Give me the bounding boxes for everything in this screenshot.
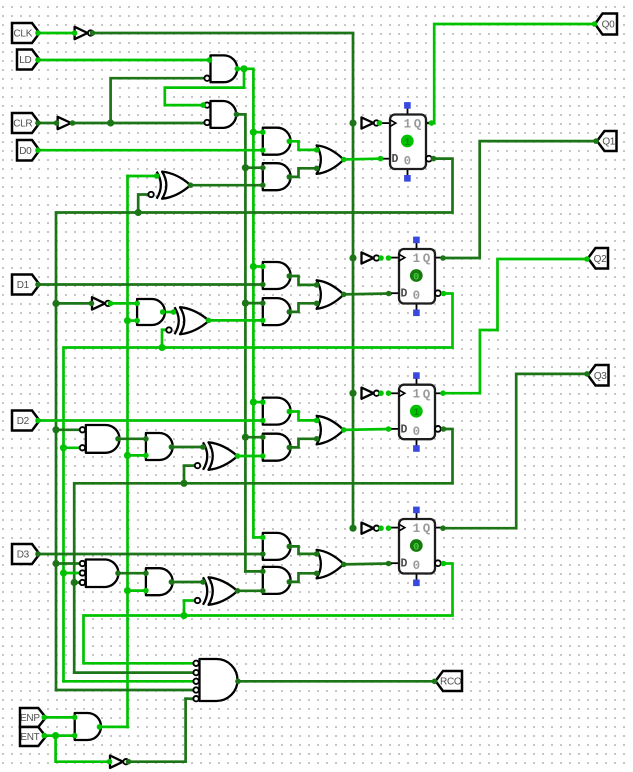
node O3 in a [314, 551, 320, 557]
node X3 output [235, 588, 241, 594]
node O3 output [341, 562, 347, 568]
output pin Q1 [597, 131, 617, 151]
wire A3L out to O3 [289, 546, 316, 554]
output pin Q2 [588, 248, 608, 269]
node I1 input [89, 301, 95, 307]
node U1 D input [378, 156, 384, 162]
input pin CLK [12, 23, 40, 43]
node A0L in a [260, 129, 266, 135]
node output pin Q2 [584, 256, 590, 262]
NOT gate N2 (ENT inverter) [110, 756, 129, 768]
svg-text:Q3: Q3 [594, 371, 607, 382]
svg-text:0: 0 [413, 271, 419, 283]
XOR gate X3 (toggle bit3) [195, 577, 238, 605]
svg-text:ENP: ENP [20, 713, 40, 724]
node X3 in a [200, 579, 206, 585]
wire X2 out to A2C input [238, 455, 263, 458]
wire A2T1 out to A2T2 [118, 437, 146, 440]
svg-text:RCO: RCO [440, 677, 462, 688]
AND gate A5 (ENP AND ENT) [75, 713, 101, 740]
node B1 input [54, 120, 60, 126]
node CLK pin [35, 30, 41, 36]
node A3T2 in b [143, 588, 149, 594]
node O1 in a [314, 282, 320, 288]
wire U2 Q to output Q1 [443, 141, 596, 258]
node U2 Q output [440, 255, 446, 261]
wire X0 out to A0C input [191, 184, 263, 187]
node CLR pin [35, 120, 41, 126]
D flip-flop U3 (bit2, state 1) [391, 372, 442, 452]
wire ENT'' to A6 input [186, 697, 194, 700]
wire A1T out to X1 input [163, 311, 175, 314]
wire U4 Q to output Q3 [443, 374, 587, 528]
svg-text:D1: D1 [17, 280, 30, 291]
node O1 output [341, 292, 347, 298]
wire O0 out to U1 D input [344, 157, 382, 161]
wire Q1' to A2T1 bubble input 2 [64, 446, 83, 449]
node A3L output [287, 544, 293, 550]
node A2L output [287, 409, 293, 415]
svg-text:D: D [401, 423, 408, 436]
node A1T output [160, 309, 166, 315]
node A0C in b [260, 182, 266, 188]
wire A0L out to O0 [289, 141, 316, 150]
node A5 in a [72, 715, 78, 721]
wire U3 Q' net: Q2' bus [74, 429, 452, 673]
node U4 clock node a [378, 525, 384, 531]
NOT gate I1 (Q0' inverter) [92, 297, 111, 309]
node A1L output [287, 273, 293, 279]
junction Q0' bus to A2T1 [52, 426, 59, 433]
wire N2 out up to A6 input [130, 699, 186, 762]
junction count bus bit1 [124, 317, 131, 324]
junction Q0' bus to I1 [52, 300, 59, 307]
D flip-flop U2 (bit1, state 0) [391, 237, 442, 317]
input pin ENP [20, 708, 46, 727]
input pin CLR [12, 113, 40, 133]
node A2C in a [260, 434, 266, 440]
node A3C output [287, 579, 293, 585]
svg-text:CLK: CLK [14, 29, 33, 40]
wire CLK to NOT N1 [38, 32, 75, 35]
wire load-enable to A1L input [253, 265, 262, 268]
wire Q0' to inverter I1 [56, 302, 92, 305]
node A3L in a [260, 535, 266, 541]
wire Q0' to A3T1 bubble input [56, 562, 82, 565]
node O2 in a [314, 418, 320, 424]
node N1 input [72, 30, 78, 36]
input pin LD [17, 50, 40, 70]
buffer B1 (CLR) [58, 117, 72, 129]
AND gate A0L (load_en AND D0) [263, 128, 291, 155]
node A1C in b [260, 318, 266, 324]
svg-text:Q1: Q1 [602, 137, 615, 148]
NOT gate N1 (CLK inverter) [75, 27, 94, 39]
wire A0C out to O0 [289, 168, 316, 177]
wire count-enable vertical bus [126, 176, 129, 727]
svg-text:0: 0 [404, 155, 412, 169]
input pin ENT [20, 727, 46, 746]
wire count-enable to A3T2 input [128, 589, 146, 592]
wire O2 out to U3 D input [344, 428, 391, 432]
wire D2 to A2L input [38, 419, 263, 422]
svg-text:Q: Q [423, 522, 431, 536]
svg-text:1: 1 [404, 137, 410, 149]
node A3C in a [260, 569, 266, 575]
node U2 clock node a [378, 255, 384, 261]
wire Q0' to X0 bubble input [138, 195, 147, 213]
node U3 Q' output [441, 426, 447, 432]
node A1T in a [134, 301, 140, 307]
AND gate A1T (Q0 AND count_en) [137, 299, 165, 325]
AND gate A3T2 (AND count_en) [146, 568, 173, 595]
svg-text:D: D [401, 558, 408, 571]
svg-text:D: D [392, 153, 399, 166]
junction load bus bit1 [250, 263, 257, 270]
wire CLK' net: N1 out across and down clock bus [93, 33, 354, 528]
output pin RCO [436, 671, 463, 691]
node D1 pin [35, 282, 41, 288]
svg-text:1: 1 [404, 117, 412, 131]
svg-text:0: 0 [413, 289, 421, 303]
node output pin Q1 [593, 138, 599, 144]
svg-text:1: 1 [413, 388, 421, 402]
wire D1 to A1L input [38, 283, 263, 286]
junction clock bus U4 [349, 525, 356, 532]
svg-text:D: D [401, 288, 408, 301]
wire X3 out to A3C input [238, 589, 263, 592]
AND gate A6 (RCO: 5 bubbled inputs) [193, 659, 237, 701]
wire B1 out to G2 lower input [72, 122, 207, 125]
junction CLR' branch [107, 119, 114, 126]
node U4 Q' output [441, 561, 447, 567]
OR gate O2 (next state bit2) [317, 416, 344, 445]
junction clock bus U2 [349, 254, 356, 261]
input pin D2 [12, 411, 40, 431]
wire A2C out to O2 [289, 439, 316, 448]
node U2 Q' output [441, 291, 447, 297]
wire X1 out to A1C input [209, 319, 263, 322]
AND gate A2T1 (Q0 AND Q1, bubbled inputs) [80, 425, 120, 453]
node U1 Q output [429, 120, 435, 126]
junction Q0' to X0 [135, 209, 142, 216]
wire hold-enable to A3C input [245, 570, 262, 573]
junction Q1' bus to A3T1 [60, 569, 67, 576]
wire hold-enable to A2C input [245, 436, 262, 439]
input pin D3 [12, 544, 40, 564]
junction count bus bit3 [124, 587, 131, 594]
junction Q1' to X1 [158, 344, 165, 351]
node O3 in b [314, 571, 320, 577]
wire A3T1 out to A3T2 [118, 572, 146, 575]
wire A1L out to O1 [289, 276, 316, 285]
wire count-enable to X0 input [128, 175, 157, 178]
junction ENT branch [52, 732, 59, 739]
node O1 in b [314, 301, 320, 307]
wire load-enable to A0L input [253, 131, 262, 134]
node X2 output [235, 453, 241, 459]
wire A2L out to O2 [289, 412, 316, 421]
node A2T1 output [115, 436, 121, 442]
node U1 Q' output [431, 156, 437, 162]
junction load bus bit0 [250, 129, 257, 136]
wire G2 out: hold-enable vertical bus [237, 114, 246, 571]
wire Q2' to A3T1 bubble input 3 [74, 581, 82, 584]
junction clock bus U1 [349, 119, 356, 126]
AND gate A2T2 (AND count_en) [146, 433, 173, 460]
node O0 in b [314, 166, 320, 172]
svg-text:D3: D3 [17, 550, 30, 561]
svg-text:D2: D2 [17, 416, 30, 427]
node U2 D input [386, 291, 392, 297]
OR gate O0 (next state bit0) [317, 145, 344, 174]
node G1 output [235, 66, 241, 72]
node A3T1 output [115, 570, 121, 576]
svg-text:0: 0 [413, 541, 419, 553]
NOT gate NC3 (clock inverter for U3) [362, 388, 380, 399]
svg-text:LD: LD [19, 55, 31, 66]
wire Q1' to X1 bubble input [162, 330, 168, 348]
wire U1 Q to output Q0 [426, 24, 595, 123]
wire Q1' to A3T1 bubble input 2 [64, 572, 83, 575]
node D0 pin [35, 147, 41, 153]
node I1 output [108, 301, 114, 307]
wire D0 to A0L input [38, 149, 263, 152]
XOR gate X1 (toggle bit1) [166, 307, 209, 334]
node A0L in b [260, 147, 266, 153]
OR gate O1 (next state bit1) [317, 280, 344, 309]
node B1 output [70, 120, 76, 126]
node U1 clock input [377, 120, 383, 126]
wire O1 out to U2 D input [344, 292, 391, 296]
junction Q1' bus to A2T1 [60, 444, 67, 451]
wire count-enable to A2T2 input [128, 454, 146, 457]
wire hold-enable to A0C input [245, 166, 262, 169]
node A2L in b [260, 418, 266, 424]
node A2T2 output [169, 444, 175, 450]
wire A5 out to count-enable bus [101, 726, 128, 729]
junction clock bus U3 [349, 390, 356, 397]
junction hold bus bit2 [242, 434, 249, 441]
wire LD to G1 input [38, 59, 211, 62]
wire U2 Q' net: Q1' bus [64, 294, 453, 682]
XOR gate X2 (toggle bit2) [195, 442, 238, 470]
node U4 D input [386, 561, 392, 567]
node O0 output [341, 157, 347, 163]
node A1T in b [134, 318, 140, 324]
wire Q0' to A2T1 bubble input [56, 428, 82, 431]
AND gate A0C (hold_en AND toggle0) [263, 163, 291, 190]
node O0 in a [314, 147, 320, 153]
NOT gate NC4 (clock inverter for U4) [362, 523, 380, 534]
node A1C output [287, 309, 293, 315]
AND gate A3L (load_en AND D3) [263, 533, 291, 560]
junction count bus bit2 [124, 452, 131, 459]
D flip-flop U1 (bit0, state 1) [382, 102, 433, 182]
AND gate A3T1 (Q0 AND Q1 AND Q2, bubbled inputs) [80, 560, 119, 588]
node U3 clock node a [378, 390, 384, 396]
node A5 output [97, 724, 103, 730]
node X1 output [206, 318, 212, 324]
svg-text:1: 1 [413, 252, 421, 266]
node X0 in a [154, 173, 160, 179]
input pin D0 [17, 140, 40, 161]
svg-text:Q: Q [414, 118, 422, 132]
wire U3 Q to output Q2 [443, 259, 587, 393]
AND gate A2C (hold_en AND toggle2) [263, 434, 291, 461]
node output pin Q0 [592, 21, 598, 27]
svg-text:Q: Q [423, 252, 431, 266]
node N2 output [126, 759, 132, 765]
node ENP pin [42, 715, 48, 721]
junction hold bus bit0 [242, 164, 249, 171]
node output pin RCO [432, 679, 438, 685]
node ENT pin [42, 733, 48, 739]
node U2 clock node b [386, 255, 392, 261]
svg-text:Q2: Q2 [594, 254, 607, 265]
node U3 Q output [440, 390, 446, 396]
node A3L in b [260, 551, 266, 557]
node A2C in b [260, 453, 266, 459]
node A3T2 output [169, 579, 175, 585]
svg-text:CLR: CLR [13, 119, 32, 130]
wire CLR' branch up to G1 lower input [111, 78, 204, 123]
node U3 D input [386, 426, 392, 432]
wire G1 out loop to G2 upper input [165, 69, 244, 105]
AND gate G1 (load enable: LD AND NOT CLR) [204, 55, 237, 82]
wire count-enable to A1T input [128, 319, 138, 322]
node U4 clock node b [386, 525, 392, 531]
wire Q2' to A6 input [74, 671, 193, 674]
svg-text:Q0: Q0 [602, 20, 615, 31]
wire CLR to buffer B1 [38, 122, 58, 125]
node A0C output [287, 174, 293, 180]
wire D3 to A3L input [38, 553, 263, 556]
junction hold bus bit1 [242, 300, 249, 307]
AND gate G2 (hold enable, both inputs bubbled) [204, 101, 236, 128]
node O2 in b [314, 436, 320, 442]
junction Q3' to X3 [180, 612, 187, 619]
node LD pin [35, 57, 41, 63]
node N2 input [107, 759, 113, 765]
wire A2T2 out to X2 input [171, 446, 203, 449]
node A2T2 in b [143, 453, 149, 459]
D flip-flop U4 (bit3, state 0) [391, 507, 442, 586]
junction G1 out branch [240, 65, 247, 72]
node A3C in b [260, 588, 266, 594]
node G1 input a [207, 57, 213, 63]
node N1 output [90, 30, 96, 36]
AND gate A2L (load_en AND D2) [263, 398, 291, 425]
wire U1 Q' net: Q0' bus [56, 159, 453, 690]
node D3 pin [35, 551, 41, 557]
svg-text:0: 0 [413, 425, 421, 439]
wire ENT branch down to NOT N2 [56, 736, 110, 762]
wire A3T2 out to X3 input [171, 581, 203, 584]
svg-text:0: 0 [413, 559, 421, 573]
wire ENT to A5 input [44, 734, 74, 737]
node A1L in b [260, 282, 266, 288]
NOT gate NC2 (clock inverter for U2) [362, 252, 380, 263]
wire I1 out to A1T input [110, 302, 138, 305]
node X0 output [188, 182, 194, 188]
junction Q2' to X2 [180, 480, 187, 487]
wire A6 out to output RCO [239, 680, 435, 683]
AND gate A3C (hold_en AND toggle3) [263, 567, 291, 594]
AND gate A1C (hold_en AND toggle1) [263, 298, 291, 325]
node A0C in a [260, 165, 266, 171]
node A2C output [287, 445, 293, 451]
wire load-enable to A3L input [253, 536, 262, 539]
node A0L output [287, 139, 293, 145]
svg-text:Q: Q [423, 388, 431, 402]
node O2 output [341, 427, 347, 433]
junction Q2' bus to A3T1 [71, 579, 78, 586]
wire Q3' to X3 bubble input [184, 601, 194, 616]
output pin Q0 [595, 14, 617, 35]
svg-text:1: 1 [413, 407, 419, 419]
junction Q0' bus to A3T1 [52, 560, 59, 567]
input pin D1 [12, 275, 40, 295]
node D2 pin [35, 418, 41, 424]
node A5 in b [72, 733, 78, 739]
node X1 in a [171, 309, 177, 315]
node X2 in a [200, 444, 206, 450]
node U3 clock node b [386, 390, 392, 396]
node A2L in a [260, 399, 266, 405]
wire O3 out to U4 D input [344, 562, 391, 566]
junction load bus bit2 [250, 399, 257, 406]
wire A3C out to O3 [289, 573, 316, 582]
wire Q2' to X2 bubble input [184, 466, 194, 484]
wire U4 Q' net: Q3' bus to A6 [84, 564, 453, 664]
node A6 output [235, 679, 241, 685]
XOR gate X0 (toggle bit0) [148, 172, 190, 199]
svg-text:1: 1 [413, 522, 421, 536]
wire A1C out to O1 [289, 303, 316, 312]
wire ENP to A5 input [44, 716, 74, 719]
node A3T2 in a [143, 570, 149, 576]
node A1L in a [260, 264, 266, 270]
svg-text:D0: D0 [19, 146, 32, 157]
node output pin Q3 [584, 371, 590, 377]
node G2 input a [201, 102, 207, 108]
svg-text:ENT: ENT [20, 732, 39, 743]
OR gate O3 (next state bit3) [317, 550, 344, 579]
node A2T2 in a [143, 436, 149, 442]
output pin Q3 [588, 365, 609, 386]
wire Q1' to A6 input [64, 680, 194, 683]
node G2 output [234, 112, 240, 118]
wire Q0' to A6 input [56, 689, 193, 692]
wire hold-enable to A1C input [245, 302, 262, 305]
wire G1 out: load-enable vertical bus [237, 69, 253, 538]
NOT gate NC1 (clock inverter for U1) [362, 117, 380, 128]
node U4 Q output [440, 525, 446, 531]
wire load-enable to A2L input [253, 401, 262, 404]
node A1C in a [260, 300, 266, 306]
AND gate A1L (load_en AND D1) [263, 262, 291, 289]
